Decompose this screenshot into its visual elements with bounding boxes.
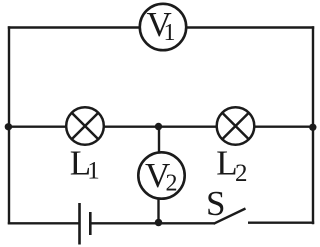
lamp L2 bbox=[217, 107, 255, 145]
junction node left bbox=[5, 123, 12, 130]
switch S blade bbox=[214, 209, 246, 224]
wire top-left segment bbox=[8, 26, 140, 28]
wire V2 upper stem bbox=[158, 127, 160, 153]
wire right vertical bbox=[312, 26, 314, 224]
wire middle row: lamp L1 to center node bbox=[104, 125, 159, 127]
wire left vertical bbox=[8, 26, 10, 224]
wire top-right segment bbox=[187, 26, 315, 28]
junction node bottom bbox=[155, 219, 163, 227]
wire middle row: lamp L2 to right dot bbox=[255, 125, 314, 127]
svg-text:1: 1 bbox=[164, 20, 176, 46]
wire middle row: center node to lamp L2 bbox=[159, 125, 217, 127]
svg-text:1: 1 bbox=[87, 158, 100, 185]
voltmeter V2 circle bbox=[138, 152, 184, 198]
battery cell: short plate bbox=[89, 212, 92, 235]
wire bottom-right: switch contact to corner bbox=[248, 221, 314, 223]
wire bottom: battery to switch pivot bbox=[91, 222, 214, 224]
battery cell: long plate bbox=[78, 203, 81, 245]
wire bottom-left: corner to battery bbox=[8, 222, 79, 224]
svg-text:2: 2 bbox=[166, 170, 178, 196]
svg-text:2: 2 bbox=[235, 160, 248, 187]
voltmeter V1 circle bbox=[140, 4, 186, 50]
wire V2 lower stem bbox=[157, 199, 159, 223]
junction node center bbox=[155, 123, 162, 130]
svg-text:S: S bbox=[206, 184, 225, 223]
junction node right bbox=[309, 124, 316, 131]
wire middle row: left dot to lamp L1 bbox=[9, 125, 66, 127]
lamp L1 bbox=[66, 107, 104, 145]
